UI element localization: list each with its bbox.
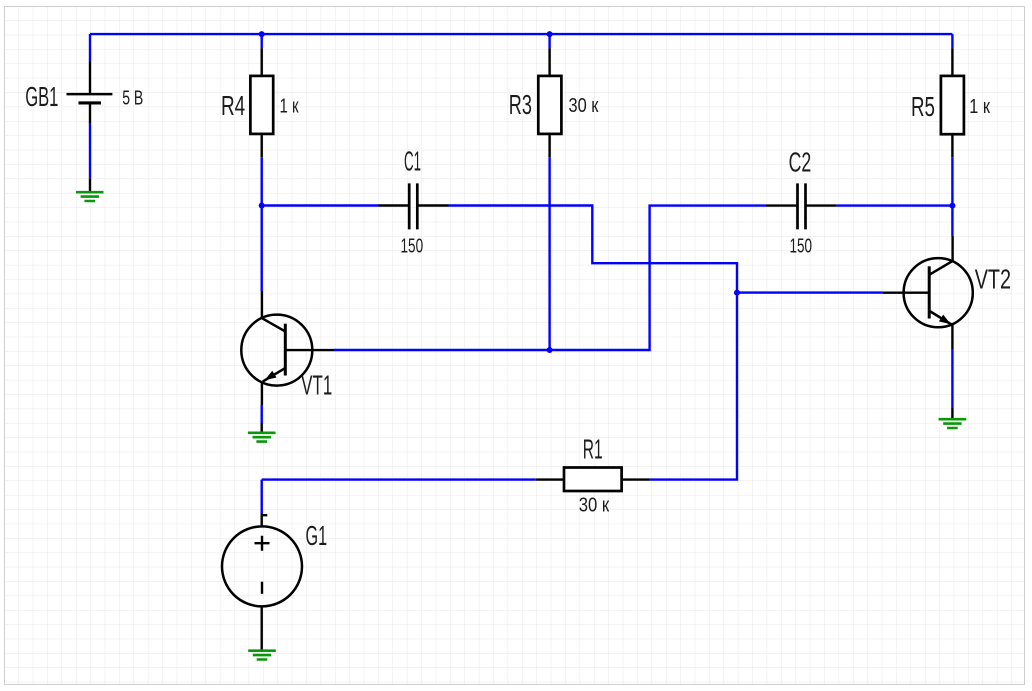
svg-text:1 к: 1 к — [280, 96, 299, 118]
svg-text:30 к: 30 к — [569, 95, 599, 117]
svg-text:1 к: 1 к — [969, 96, 990, 118]
svg-text:VT1: VT1 — [301, 370, 332, 401]
svg-text:R3: R3 — [509, 89, 532, 120]
svg-text:150: 150 — [790, 235, 813, 257]
svg-text:C1: C1 — [404, 145, 421, 176]
svg-text:G1: G1 — [306, 520, 328, 551]
svg-text:5 В: 5 В — [122, 87, 143, 109]
svg-text:GB1: GB1 — [25, 81, 58, 112]
svg-text:150: 150 — [401, 235, 424, 257]
svg-text:R4: R4 — [221, 90, 245, 121]
svg-text:C2: C2 — [789, 147, 812, 178]
svg-text:R1: R1 — [583, 433, 603, 464]
svg-text:R5: R5 — [911, 91, 935, 122]
svg-text:VT2: VT2 — [975, 263, 1011, 294]
svg-text:30 к: 30 к — [579, 494, 610, 516]
